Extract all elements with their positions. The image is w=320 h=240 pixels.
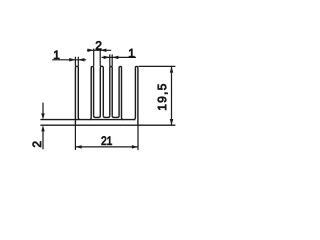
label 21 (bottom) [102, 136, 112, 144]
slot bottom between F3-F4 [103, 116, 110, 118]
dim 1 right: extension lines [110, 54, 112, 66]
fin F5 [119, 66, 123, 119]
arrowheads dim 1 left [69, 58, 75, 62]
dim 1 left: dimension line [52, 59, 86, 61]
dim 2 left: stems [42, 103, 44, 150]
label 1 (right) [129, 49, 134, 57]
arrowheads dim 1 right [104, 56, 110, 60]
base bottom line (also extension lines left + right) [40, 124, 175, 126]
arrowheads dim 21 [75, 145, 81, 149]
dim 19,5: top extension line [139, 65, 176, 67]
dim 1 left: extension lines [75, 57, 78, 66]
dim 2 top: extension lines [93, 49, 95, 67]
arrowheads dim 2 left [41, 113, 45, 119]
slot bottom between F2-F3 [94, 116, 101, 118]
fin F3 [100, 66, 103, 116]
arrowheads dim 19,5 [170, 66, 174, 72]
fin F4 [110, 67, 112, 116]
dim 19,5: dimension line [171, 66, 173, 125]
fin F1 (left wall, 1mm) [75, 66, 80, 125]
right wall fin F6 [133, 66, 138, 125]
fin F2 [89, 67, 93, 120]
label 2 (left, rotated) [33, 142, 41, 147]
label 19,5 (right, rotated) [158, 84, 168, 110]
dim 1 right: dimension line [102, 56, 136, 58]
label 2 (top) [96, 41, 101, 49]
dim 21 bottom: extension lines [75, 125, 138, 150]
label 1 (left) [54, 51, 59, 59]
slot bottom between F4-F5 [112, 116, 119, 118]
arrowheads dim 2 top [88, 49, 94, 53]
dim 21 bottom: dimension line [75, 146, 138, 148]
base top line (also extension for left 2 dim) [40, 119, 135, 121]
dim 2 top: dimension line [87, 49, 111, 51]
